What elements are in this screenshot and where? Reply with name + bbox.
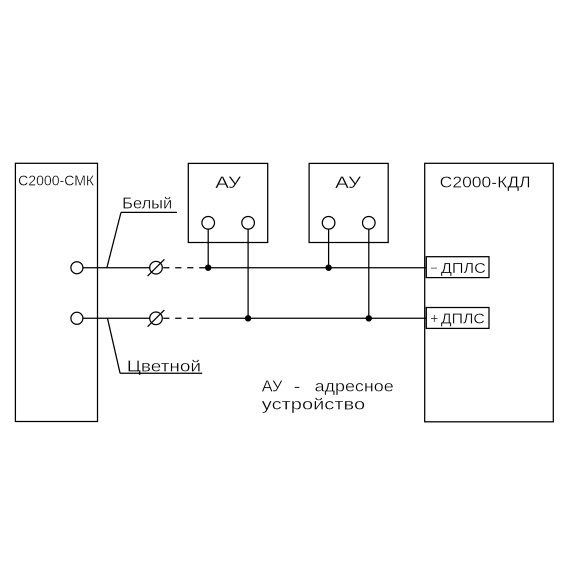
wire U1 pin2 to plus line xyxy=(247,229,249,318)
splice symbol on white wire xyxy=(150,261,163,274)
underline Белый xyxy=(121,211,177,213)
leader Цветной to colored wire xyxy=(108,318,121,373)
wire minus ДПЛС solid right xyxy=(207,267,427,269)
wire U1 pin1 to minus line xyxy=(207,229,209,268)
terminal circle U1 pin 1 xyxy=(202,217,215,230)
splice symbol on colored wire xyxy=(150,312,163,325)
terminal circle U2 pin 1 xyxy=(322,217,335,230)
svg-text:С2000-КДЛ: С2000-КДЛ xyxy=(440,174,531,191)
junction U2 pin2 / plus line xyxy=(366,315,372,321)
wire plus ДПЛС solid right xyxy=(199,317,426,319)
wire plus ДПЛС solid left xyxy=(83,317,150,319)
junction U2 pin1 / minus line xyxy=(325,265,331,271)
junction U1 pin2 / plus line xyxy=(245,315,251,321)
terminal circle СМК upper xyxy=(71,262,83,274)
splice slash on colored wire xyxy=(148,310,165,327)
terminal circle U1 pin 2 xyxy=(242,217,255,230)
svg-text:АУ-адресное: АУ-адресное xyxy=(262,379,394,396)
svg-text:устройство: устройство xyxy=(262,396,365,413)
device box С2000-КДЛ xyxy=(425,163,554,422)
wire U2 pin1 to minus line xyxy=(328,229,330,268)
svg-text:С2000-СМК: С2000-СМК xyxy=(18,173,95,189)
junction U1 pin1 / minus line xyxy=(205,265,211,271)
terminal circle U2 pin 2 xyxy=(363,217,376,230)
wire plus ДПЛС dashed xyxy=(163,317,199,319)
splice slash on white wire xyxy=(148,259,165,276)
wire minus ДПЛС dashed xyxy=(163,267,206,269)
wire U2 pin2 to plus line xyxy=(368,229,370,318)
terminal box -ДПЛС xyxy=(426,257,489,278)
underline Цветной xyxy=(120,372,202,374)
device box С2000-СМК xyxy=(15,163,97,421)
svg-text:Белый: Белый xyxy=(122,195,172,212)
svg-text:АУ: АУ xyxy=(215,173,241,192)
terminal box +ДПЛС xyxy=(426,308,489,329)
device box АУ U1 xyxy=(188,163,267,242)
leader Белый to white wire xyxy=(107,212,121,267)
device box АУ U2 xyxy=(309,163,388,242)
terminal circle СМК lower xyxy=(71,312,83,324)
svg-text:АУ: АУ xyxy=(335,173,361,192)
wire minus ДПЛС solid left xyxy=(83,267,150,269)
